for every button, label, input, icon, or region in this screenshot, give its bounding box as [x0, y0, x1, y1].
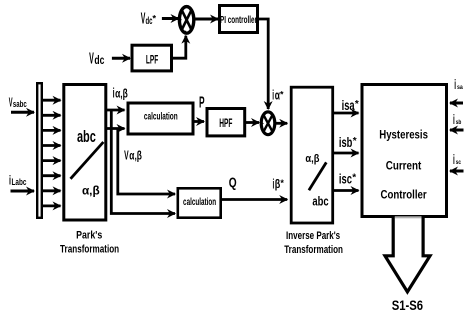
wire bus rung 2 [43, 114, 61, 117]
svg-text:i: i [454, 77, 456, 92]
wire bus rung 4 [43, 144, 61, 147]
block HPF [207, 109, 245, 136]
node i-beta-star label [273, 176, 285, 191]
wire bus rung 6 [43, 174, 61, 177]
node Vdc* label [141, 11, 157, 28]
svg-text:isb: isb [339, 135, 353, 150]
svg-text:Controller: Controller [381, 189, 427, 202]
svg-text:sabc: sabc [13, 99, 27, 109]
svg-text:V: V [124, 148, 129, 163]
wire HPF to summing junction S2 [246, 121, 260, 124]
wire isb* to hysteresis controller [334, 152, 359, 155]
node i-alpha-star label [272, 88, 284, 103]
block Park's Transformation (abc to alpha-beta) [64, 85, 106, 221]
svg-text:Park's: Park's [76, 230, 102, 242]
summing junction S2 (ellipse with X) [261, 112, 275, 135]
svg-text:isa: isa [342, 98, 355, 113]
wire bus rung 7 [43, 189, 61, 192]
wire summing junction S2 to inverse Park box [276, 122, 287, 125]
block arrow S1-S6 (hollow down arrow) [385, 217, 430, 292]
svg-text:*: * [280, 178, 284, 188]
svg-text:Hysteresis: Hysteresis [379, 128, 428, 141]
svg-text:dc: dc [94, 55, 104, 67]
wire branch down from line B to q calculation [118, 129, 175, 195]
svg-text:Current: Current [386, 159, 422, 172]
svg-text:sb: sb [456, 119, 462, 126]
node isc label (right side) [453, 152, 461, 167]
block q calculation [178, 188, 221, 217]
svg-text:HPF: HPF [219, 116, 232, 130]
block Hysteresis Current Controller [362, 85, 447, 217]
summing junction S1 (ellipse with X, plus and minus) [179, 7, 194, 35]
node iLabc label [9, 173, 26, 188]
svg-text:LPF: LPF [146, 52, 159, 66]
wire bus rung 8 [43, 204, 61, 207]
wire isb input arrow [450, 129, 464, 132]
svg-text:α,β: α,β [82, 184, 100, 198]
wire abc box to p calculation (line A) [107, 109, 125, 112]
wire bus rung 1 [43, 99, 61, 102]
wire isc input arrow [450, 170, 464, 173]
svg-text:abc: abc [77, 127, 96, 146]
node isc* label [339, 172, 356, 187]
node isa label (right side) [454, 77, 463, 92]
wire PI controller output down to summing junction S2 [258, 19, 268, 109]
wire isa input arrow [450, 102, 463, 105]
block PI controller [220, 6, 258, 33]
svg-text:Labc: Labc [12, 177, 27, 188]
svg-text:calculation: calculation [183, 197, 216, 208]
svg-text:i: i [453, 112, 455, 127]
wire p calculation to HPF [193, 120, 204, 123]
svg-text:*: * [353, 136, 357, 147]
bus bar (input collector) [37, 83, 42, 218]
svg-text:abc: abc [312, 194, 328, 208]
block p calculation [128, 103, 193, 134]
wire Vsabc input arrow [11, 111, 34, 114]
svg-text:*: * [152, 14, 156, 25]
wire abc box to p calculation (line B) [107, 127, 125, 130]
node i-alpha-beta label [113, 86, 128, 101]
wire iLabc input arrow [11, 190, 35, 193]
block Inverse Park's Transformation (alpha-beta to abc) [291, 87, 333, 223]
svg-text:i: i [453, 152, 455, 167]
svg-text:Inverse Park's: Inverse Park's [286, 230, 340, 242]
svg-text:calculation: calculation [144, 111, 178, 122]
wire LPF output up to summing junction S1 [171, 36, 186, 58]
node isa* label [342, 98, 359, 113]
svg-text:*: * [280, 90, 284, 100]
svg-text:P: P [199, 94, 205, 111]
wire branch down from line A to q calculation [111, 110, 175, 214]
svg-text:isc: isc [339, 172, 352, 187]
node Vdc label [89, 51, 105, 68]
svg-text:Transformation: Transformation [284, 244, 343, 256]
wire isa* to hysteresis controller [334, 112, 359, 115]
block LPF [132, 45, 172, 71]
wire bus rung 5 [43, 159, 61, 162]
svg-text:α,β: α,β [305, 153, 319, 165]
svg-text:Q: Q [229, 175, 237, 191]
svg-text:-: - [184, 28, 186, 35]
svg-text:α,β: α,β [129, 149, 142, 163]
node isb* label [339, 135, 357, 150]
svg-text:PI controller: PI controller [220, 15, 257, 26]
svg-text:sa: sa [457, 84, 463, 91]
svg-text:α,β: α,β [115, 87, 128, 101]
wire q calculation output to inverse Park box [222, 198, 288, 201]
wire bus rung 3 [43, 129, 61, 132]
svg-text:sc: sc [456, 159, 461, 166]
wire isc* to hysteresis controller [334, 189, 359, 192]
svg-text:Transformation: Transformation [60, 243, 119, 255]
node V-alpha-beta label [124, 148, 142, 163]
svg-text:V: V [89, 51, 94, 68]
svg-text:*: * [352, 173, 356, 184]
wire Vdc* to summing junction S1 [162, 17, 179, 20]
svg-text:S1-S6: S1-S6 [392, 298, 423, 313]
svg-text:*: * [355, 99, 359, 110]
wire Vdc to LPF [112, 57, 130, 60]
node Vsabc label [9, 95, 27, 110]
svg-text:+: + [179, 17, 182, 23]
node isb label (right side) [453, 112, 461, 127]
wire summing junction S1 to PI controller [194, 18, 218, 21]
svg-text:+: + [261, 121, 264, 127]
